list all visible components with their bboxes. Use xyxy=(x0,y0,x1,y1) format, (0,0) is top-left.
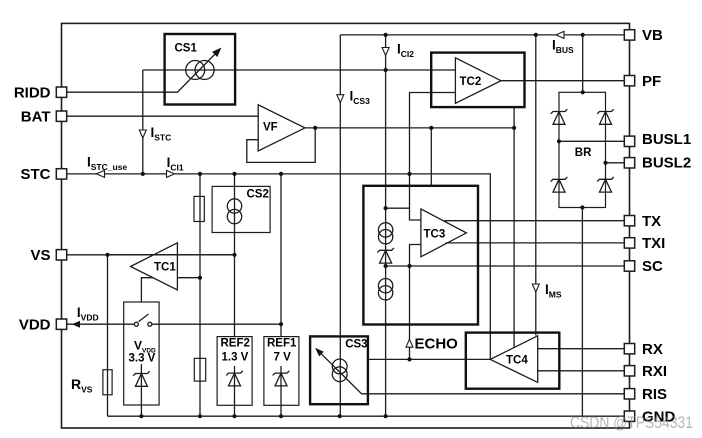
svg-text:3.3 V: 3.3 V xyxy=(129,352,156,364)
current source CS2 circles xyxy=(227,199,241,213)
wire ECHO drop from TC3 to TC4 output line xyxy=(409,266,411,359)
svg-text:RIDD: RIDD xyxy=(14,84,51,101)
wire REF1 zener to GND rail xyxy=(280,366,282,416)
zener diode REF2 xyxy=(226,371,243,376)
op-amp TC1 triangle pointing left xyxy=(131,243,178,290)
wire VS rail xyxy=(67,254,235,256)
wire TC1 output stub xyxy=(177,277,200,279)
arrow I_VDD left xyxy=(72,321,80,328)
box REF2 xyxy=(217,337,252,406)
svg-text:REF2: REF2 xyxy=(221,338,250,350)
junction dots VF output wire xyxy=(313,126,317,130)
junction dots VS rail xyxy=(105,253,109,257)
svg-text:BUSL2: BUSL2 xyxy=(642,155,691,172)
switch in V_VDD box xyxy=(134,322,138,326)
svg-text:ECHO: ECHO xyxy=(415,336,459,353)
arrow I_CS3 down xyxy=(337,95,344,103)
box REF1 xyxy=(264,337,299,406)
box TC2 xyxy=(431,53,524,108)
arrow I_CI2 down xyxy=(382,48,389,56)
wire VF output to TC2-bottom junction xyxy=(305,127,514,129)
svg-text:TXI: TXI xyxy=(642,235,665,252)
svg-text:STC: STC xyxy=(21,166,51,183)
wire VS passing through TC1 (redraw over triangle) xyxy=(108,254,235,256)
wire CS2 branch x=234.5 STC to REF2 xyxy=(234,174,236,337)
wire VF feedback loop xyxy=(247,128,315,162)
diode BR bottom-left xyxy=(551,177,568,182)
svg-text:TC3: TC3 xyxy=(424,229,446,241)
op-amp VF triangle xyxy=(258,105,305,151)
current source CS3 circles xyxy=(332,359,347,374)
pin VS xyxy=(56,250,66,260)
svg-text:RIS: RIS xyxy=(642,386,667,403)
svg-text:PF: PF xyxy=(642,73,661,90)
pin BAT xyxy=(56,111,66,121)
wire VDD pin to switch xyxy=(67,323,135,325)
svg-text:REF1: REF1 xyxy=(267,338,297,350)
wire SC rail from TC3 zener node xyxy=(386,265,625,267)
svg-text:7 V: 7 V xyxy=(274,352,292,364)
outer border of IC block xyxy=(62,23,630,428)
wire RX from TC4 xyxy=(538,348,625,350)
wire VB rail y=34.9 xyxy=(340,34,624,36)
svg-text:1.3 V: 1.3 V xyxy=(222,352,249,364)
zener diode in TC3 xyxy=(377,248,394,253)
pin STC xyxy=(56,169,66,179)
wire RXI from TC4 xyxy=(538,370,625,372)
wire REF1 branch x=281 STC to REF1 xyxy=(280,174,282,337)
svg-text:VDD: VDD xyxy=(19,316,51,333)
diode BR top-right xyxy=(597,109,614,114)
pin BUSL1 xyxy=(624,136,634,146)
wire BUSL1 from bridge left node xyxy=(559,140,624,142)
op-amp TC4 triangle pointing left xyxy=(490,336,538,383)
pin TXI xyxy=(624,238,634,248)
wire line B: VB rail down through TC3 chain to GND rail xyxy=(385,35,387,416)
wire BUSL2 from bridge right node xyxy=(606,162,625,164)
zener diode REF1 xyxy=(273,371,290,376)
wire I_MS line: VB rail down to TC4 xyxy=(535,35,537,336)
svg-text:CS3: CS3 xyxy=(345,339,367,351)
svg-text:BR: BR xyxy=(575,147,592,159)
wire line A: VB rail down through CS3 to GND rail xyxy=(339,35,341,416)
wire TC3 lower input step xyxy=(410,245,421,267)
arrow I_BUS left xyxy=(556,31,564,38)
junction dot ECHO node xyxy=(407,357,411,361)
pin VDD xyxy=(56,319,66,329)
junction dots VB rail xyxy=(384,33,388,37)
current source in TC3 lower xyxy=(378,279,392,293)
pin TX xyxy=(624,216,634,226)
box TC3 xyxy=(363,186,478,325)
junction dot CS1 wire xyxy=(384,68,388,72)
svg-text:BUSL1: BUSL1 xyxy=(642,131,691,148)
box CS2 xyxy=(212,186,270,232)
svg-text:VF: VF xyxy=(263,122,278,134)
wire V_VDD zener to GND rail xyxy=(140,364,142,416)
wire TC2 output to PF pin xyxy=(501,80,624,82)
wire BAT to VF input xyxy=(67,115,259,117)
svg-text:VS: VS xyxy=(30,247,50,264)
arrow I_STC down xyxy=(139,130,146,138)
junction dots bridge xyxy=(581,90,585,94)
current source CS1 circles xyxy=(186,61,205,80)
diode BR top-left xyxy=(551,109,568,114)
arrow I_MS down xyxy=(532,284,539,292)
arrowhead CS1 control xyxy=(212,48,221,58)
wire bridge bottom drop to GND rail xyxy=(581,208,583,417)
zener diode V_VDD xyxy=(133,371,150,376)
svg-text:SC: SC xyxy=(642,258,663,275)
box V_VDD regulator xyxy=(124,302,159,405)
svg-text:TX: TX xyxy=(642,213,661,230)
junction dot VDD-REF1 xyxy=(279,322,283,326)
svg-text:CS2: CS2 xyxy=(247,189,269,201)
junction dots STC rail xyxy=(141,172,145,176)
bridge rectifier BR box xyxy=(559,92,606,207)
svg-text:TC4: TC4 xyxy=(506,355,528,367)
pin SC xyxy=(624,261,634,271)
diode BR bottom-right xyxy=(597,177,614,182)
op-amp TC2 triangle xyxy=(455,58,501,104)
box CS3 xyxy=(310,336,368,404)
box CS1 xyxy=(165,34,236,105)
pin RIDD xyxy=(56,87,66,97)
svg-text:CSDN @TPS54331: CSDN @TPS54331 xyxy=(570,414,693,432)
wire switch to REF1 branch junction xyxy=(152,323,281,325)
pin RXI xyxy=(624,366,634,376)
box TC4 xyxy=(466,333,560,389)
wire REF2 zener to GND rail xyxy=(234,366,236,416)
wire TC2 bottom to TC4 via VF junction xyxy=(513,107,515,347)
wire GND rail xyxy=(108,415,625,417)
op-amp TC3 triangle xyxy=(421,209,467,257)
resistor on STC branch xyxy=(194,196,204,221)
wire TC4 output to CS3 xyxy=(368,358,490,360)
wire TC3 upper bias from line B xyxy=(386,207,410,209)
svg-text:RX: RX xyxy=(642,341,663,358)
wire TC2 lower input from STC vertical x=409.5 xyxy=(410,93,456,221)
arrow I_CI1 right xyxy=(167,170,175,177)
pin RIS xyxy=(624,389,634,399)
pin PF xyxy=(624,76,634,86)
junction dots GND rail xyxy=(139,414,143,418)
pin GND xyxy=(624,411,634,421)
wire STC rail then down into TC4 apex xyxy=(67,174,491,360)
svg-text:CS1: CS1 xyxy=(175,43,198,55)
svg-text:TC1: TC1 xyxy=(154,262,176,274)
junction dot TC1 output xyxy=(198,276,202,280)
pin VB xyxy=(624,30,634,40)
arrowhead CS3 control xyxy=(315,348,324,357)
wire TC3 TXI output xyxy=(446,242,625,244)
svg-text:VB: VB xyxy=(642,27,663,44)
wire TC3 TX output xyxy=(445,220,625,222)
resistor R_VS xyxy=(103,370,112,395)
svg-text:BAT: BAT xyxy=(21,108,51,125)
junction dots TC3 internals xyxy=(384,206,388,210)
wire CS1 current path y=70 to TC2 input xyxy=(143,69,456,71)
wire CS3 control diagonal to RIS pin xyxy=(318,351,624,394)
wire R_VS branch VS down to GND rail xyxy=(107,255,109,416)
wire TC1 control from VDD switch xyxy=(141,278,153,302)
arrow ECHO up xyxy=(406,339,413,347)
svg-text:RXI: RXI xyxy=(642,363,667,380)
resistor lower on STC branch xyxy=(194,358,205,381)
pin RX xyxy=(624,344,634,354)
wire RIDD to CS1 control xyxy=(67,50,220,93)
wire STC resistor branch x=200 xyxy=(199,174,201,416)
wire VF junction drop to TC3 box top xyxy=(430,128,432,186)
wire bridge top drop from VB rail xyxy=(582,35,584,92)
wire I_STC drop x=142.8 xyxy=(142,70,144,174)
arrow I_STC_use left xyxy=(97,170,105,177)
current source in TC3 upper xyxy=(378,223,392,237)
pin BUSL2 xyxy=(624,158,634,168)
svg-text:TC2: TC2 xyxy=(460,76,482,88)
